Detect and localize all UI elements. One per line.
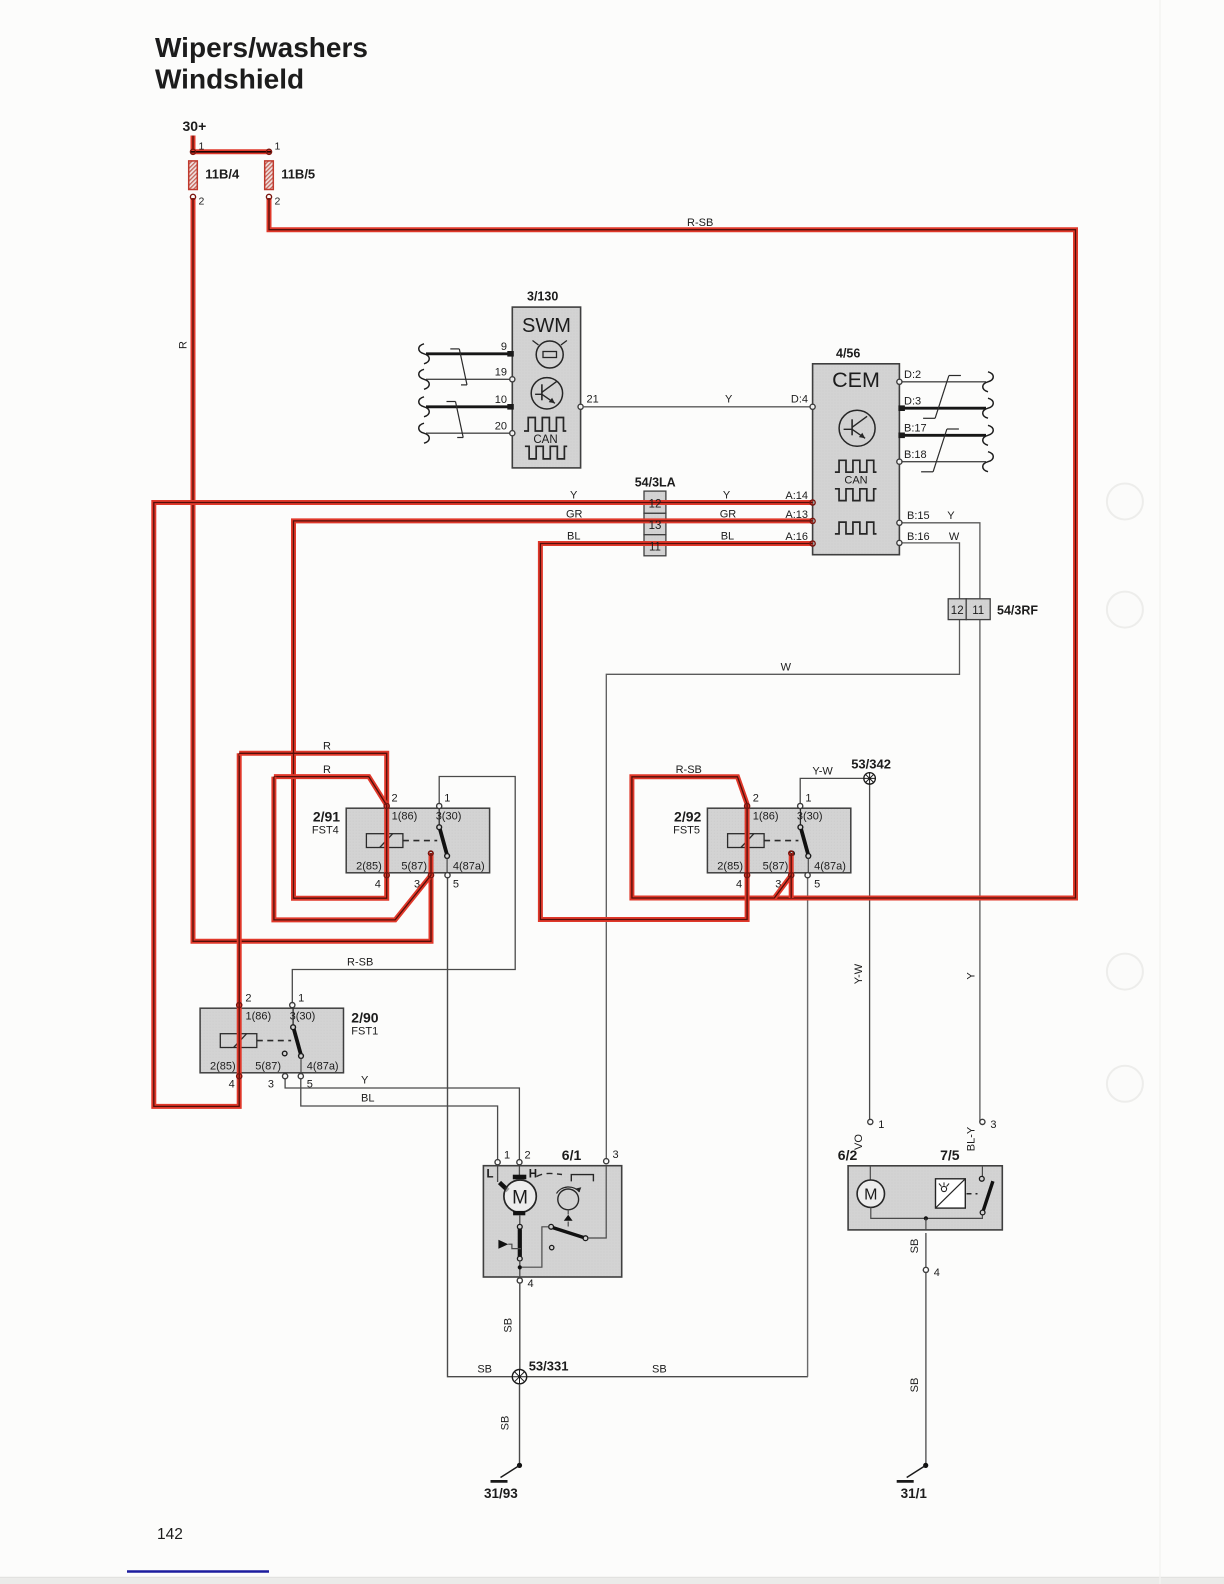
wire Y-W from relay 2/92 pin 1 to grommet 53/342	[800, 778, 864, 804]
wire R-SB from relay 2/91 pin 1 to relay 2/90 pin 1	[292, 777, 515, 1006]
wire R-SB from fuse 11B/5 along top and right side to relay 2/92	[269, 198, 1076, 898]
svg-text:BL: BL	[567, 531, 580, 543]
svg-text:3(30): 3(30)	[290, 1011, 316, 1023]
relay 2/90 FST1	[200, 993, 379, 1091]
wire W from CEM B:16 to wiper motor 6/1 pin 3	[606, 543, 959, 1161]
svg-text:FST5: FST5	[673, 825, 700, 837]
svg-text:6/1: 6/1	[562, 1147, 582, 1163]
wire R-SB 2/92 coil, BL return to CEM A:16	[540, 544, 812, 920]
wire SWM pin 9	[426, 352, 512, 355]
motor 6/1 windshield wiper motor	[483, 1147, 621, 1290]
svg-text:3: 3	[990, 1119, 996, 1131]
title	[155, 32, 368, 95]
cable slash SWM 10/20	[456, 402, 464, 438]
relay 2/92 pins	[745, 803, 811, 877]
svg-text:3: 3	[268, 1079, 274, 1091]
svg-text:Y-W: Y-W	[812, 766, 833, 778]
svg-text:12: 12	[951, 605, 964, 617]
svg-text:4: 4	[229, 1079, 235, 1091]
connector 54/3LA	[635, 476, 676, 556]
svg-text:2/92: 2/92	[674, 809, 701, 825]
svg-text:54/3RF: 54/3RF	[997, 604, 1038, 618]
svg-text:1: 1	[805, 793, 811, 805]
motor 6/2 washer pump and switch 7/5	[838, 1119, 1003, 1279]
svg-text:4(87a): 4(87a)	[453, 861, 485, 873]
svg-text:1: 1	[298, 993, 304, 1005]
svg-text:21: 21	[587, 394, 599, 406]
svg-text:1(86): 1(86)	[753, 811, 779, 823]
svg-text:SB: SB	[500, 1416, 512, 1431]
wire BL from relay 2/90 pin 5 to motor 6/1 pin 1	[301, 1076, 498, 1162]
wire Y-W from grommet 53/342 to pump 6/2 pin 1	[869, 784, 871, 1122]
svg-text:B:17: B:17	[904, 423, 927, 435]
svg-text:53/342: 53/342	[851, 757, 891, 772]
ground 31/93	[484, 1463, 522, 1501]
relay 2/91 FST4	[312, 793, 490, 891]
cable slash CEM B:17/B:18	[933, 429, 947, 472]
svg-text:Y: Y	[725, 394, 733, 406]
wire SB from relay 2/91 pin 5 to junction 53/331	[448, 875, 808, 1376]
svg-text:11: 11	[972, 605, 984, 617]
svg-text:2: 2	[753, 793, 759, 805]
svg-text:R-SB: R-SB	[347, 957, 373, 969]
wire SB from motor 6/1 pin 4 to junction 53/331	[519, 1283, 521, 1374]
svg-text:31/1: 31/1	[901, 1486, 928, 1501]
wire SWM pin 10	[426, 405, 512, 408]
svg-text:CAN: CAN	[844, 475, 867, 487]
svg-text:53/331: 53/331	[529, 1359, 569, 1374]
wire R upper loop: relay coils feed 2/90 pin 2	[154, 503, 813, 1107]
svg-text:Windshield: Windshield	[155, 64, 304, 95]
svg-text:19: 19	[495, 367, 507, 379]
svg-text:1: 1	[199, 141, 205, 153]
svg-text:L: L	[487, 1169, 494, 1181]
wire CEM B:18	[899, 461, 986, 463]
svg-text:3/130: 3/130	[527, 290, 558, 304]
wire break squiggles SWM	[419, 344, 430, 443]
wire SB from pump 6/2 pin 4 to ground 31/1	[925, 1233, 927, 1465]
CEM pins	[810, 379, 905, 546]
wire CEM D:3	[899, 407, 986, 410]
svg-text:1: 1	[504, 1150, 510, 1162]
svg-text:Y: Y	[966, 972, 978, 980]
svg-text:2(85): 2(85)	[717, 861, 743, 873]
svg-text:10: 10	[495, 394, 507, 406]
wire SB from relay 2/92 pin 5 down	[807, 875, 809, 1377]
svg-text:R: R	[323, 764, 331, 776]
svg-text:7/5: 7/5	[940, 1147, 960, 1163]
svg-text:54/3LA: 54/3LA	[635, 476, 676, 490]
wire CEM B:17	[899, 434, 986, 437]
svg-text:SWM: SWM	[522, 315, 571, 337]
svg-text:4/56: 4/56	[836, 347, 860, 361]
wire Y from CEM B:15 to washer switch 7/5 pin 3	[899, 523, 980, 1122]
wire SWM 21 to CEM D:4 (Y)	[583, 406, 812, 408]
svg-text:Y: Y	[570, 490, 578, 502]
svg-text:2/90: 2/90	[351, 1010, 378, 1026]
cable slash SWM 9/19	[459, 349, 467, 385]
svg-text:D:3: D:3	[904, 396, 921, 408]
fuse 11B/4	[189, 141, 240, 208]
svg-text:Y: Y	[723, 490, 731, 502]
svg-text:11B/5: 11B/5	[281, 167, 315, 182]
CEM pin labels right	[904, 369, 930, 543]
svg-text:4: 4	[528, 1278, 534, 1290]
svg-text:31/93: 31/93	[484, 1486, 518, 1501]
svg-text:3(30): 3(30)	[797, 811, 823, 823]
svg-text:4: 4	[934, 1267, 940, 1279]
svg-text:5: 5	[307, 1079, 313, 1091]
svg-text:B:18: B:18	[904, 449, 927, 461]
svg-text:SB: SB	[652, 1364, 667, 1376]
svg-text:BL-Y: BL-Y	[966, 1126, 978, 1151]
op-amp U-CEM 4/56 central module box	[813, 347, 900, 555]
svg-text:GR: GR	[566, 509, 583, 521]
relay 2/91 pins	[384, 803, 450, 877]
svg-text:R: R	[178, 341, 190, 349]
wire SWM pin 19	[426, 378, 512, 380]
svg-text:2: 2	[199, 196, 205, 208]
svg-text:1: 1	[275, 141, 281, 153]
fuse feed: wire R from fuse 11B/4 to relay 2/91 pin 3	[193, 198, 431, 941]
svg-text:4: 4	[375, 879, 381, 891]
svg-text:FST4: FST4	[312, 825, 339, 837]
svg-text:20: 20	[495, 421, 507, 433]
svg-text:R-SB: R-SB	[676, 764, 702, 776]
svg-text:VO: VO	[853, 1134, 865, 1150]
svg-text:1(86): 1(86)	[392, 811, 418, 823]
svg-text:2/91: 2/91	[313, 809, 340, 825]
row labels Y GR BL	[566, 490, 736, 543]
wire R loop to relay 2/91 pin 3	[274, 777, 431, 920]
svg-text:4: 4	[736, 879, 742, 891]
svg-text:SB: SB	[909, 1378, 921, 1393]
svg-text:12: 12	[649, 499, 662, 511]
svg-text:1: 1	[878, 1119, 884, 1131]
wire break squiggles CEM	[983, 372, 994, 472]
op-amp U-SWM 3/130 control module box	[512, 290, 580, 468]
relay 2/92 FST5	[673, 793, 851, 891]
junction 53/331	[512, 1359, 568, 1384]
connector 54/3LA pin numbers	[649, 499, 662, 554]
SWM pins	[507, 351, 583, 436]
svg-text:Wipers/washers: Wipers/washers	[155, 32, 368, 63]
wire R upper to relay 2/91 pin 2, coil, GR return to CEM A:13	[239, 521, 812, 898]
svg-text:3(30): 3(30)	[436, 811, 462, 823]
svg-text:Y: Y	[361, 1075, 369, 1087]
svg-text:13: 13	[649, 520, 662, 532]
svg-text:CEM: CEM	[832, 368, 880, 392]
svg-text:B:16: B:16	[907, 531, 930, 543]
svg-text:SB: SB	[477, 1364, 492, 1376]
SWM pin numbers	[495, 341, 507, 433]
grommet 53/342	[851, 757, 891, 785]
CEM pin labels left	[785, 490, 808, 543]
svg-text:M: M	[512, 1188, 528, 1209]
svg-text:R: R	[323, 741, 331, 753]
wire SWM pin 20	[426, 432, 512, 434]
svg-text:SB: SB	[503, 1318, 515, 1333]
cable slash CEM D:2/D:3	[935, 376, 949, 419]
svg-text:R-SB: R-SB	[687, 217, 713, 229]
svg-text:2: 2	[275, 196, 281, 208]
svg-text:Y-W: Y-W	[853, 963, 865, 984]
svg-text:9: 9	[501, 341, 507, 353]
svg-text:BL: BL	[361, 1093, 374, 1105]
svg-text:2(85): 2(85)	[356, 861, 382, 873]
svg-text:5(87): 5(87)	[255, 1061, 281, 1073]
wire CEM D:2	[899, 381, 986, 383]
svg-text:11: 11	[649, 542, 661, 554]
svg-text:B:15: B:15	[907, 510, 930, 522]
svg-text:3: 3	[613, 1149, 619, 1161]
svg-text:5(87): 5(87)	[401, 861, 427, 873]
svg-text:2(85): 2(85)	[210, 1061, 236, 1073]
svg-text:GR: GR	[720, 509, 737, 521]
svg-text:SB: SB	[909, 1239, 921, 1254]
svg-text:M: M	[864, 1187, 877, 1204]
fuse 11B/5	[265, 141, 315, 208]
svg-text:142: 142	[157, 1526, 183, 1543]
svg-text:5: 5	[814, 879, 820, 891]
ground 31/1	[897, 1463, 929, 1501]
svg-text:W: W	[781, 662, 792, 674]
wire Y from relay 2/90 pin 3 to motor 6/1 pin 2	[285, 1076, 519, 1162]
svg-text:H: H	[529, 1169, 537, 1181]
svg-text:W: W	[949, 531, 960, 543]
svg-text:FST1: FST1	[351, 1026, 378, 1038]
svg-text:1(86): 1(86)	[246, 1011, 272, 1023]
svg-text:CAN: CAN	[533, 434, 557, 446]
relay 2/90 pins	[237, 1003, 304, 1079]
wire red fuse link	[191, 149, 271, 154]
svg-text:4(87a): 4(87a)	[307, 1061, 339, 1073]
svg-text:1: 1	[444, 793, 450, 805]
wire R lower loop at relay 2/91	[274, 777, 387, 806]
svg-text:2: 2	[525, 1150, 531, 1162]
svg-text:BL: BL	[721, 531, 734, 543]
svg-text:D:2: D:2	[904, 369, 921, 381]
svg-text:4(87a): 4(87a)	[814, 861, 846, 873]
svg-text:30+: 30+	[183, 118, 207, 134]
wire red diagonal to relay 2/92 pin 3	[774, 853, 791, 898]
svg-text:Y: Y	[947, 510, 955, 522]
svg-text:2: 2	[245, 993, 251, 1005]
connector 54/3RF	[948, 599, 1038, 620]
wire SB from 53/331 to ground 31/93	[519, 1384, 521, 1465]
wire red 30+ stub	[191, 136, 196, 151]
svg-text:D:4: D:4	[791, 394, 808, 406]
svg-text:5(87): 5(87)	[763, 861, 789, 873]
svg-text:5: 5	[453, 879, 459, 891]
svg-text:11B/4: 11B/4	[205, 167, 240, 182]
svg-text:2: 2	[392, 793, 398, 805]
